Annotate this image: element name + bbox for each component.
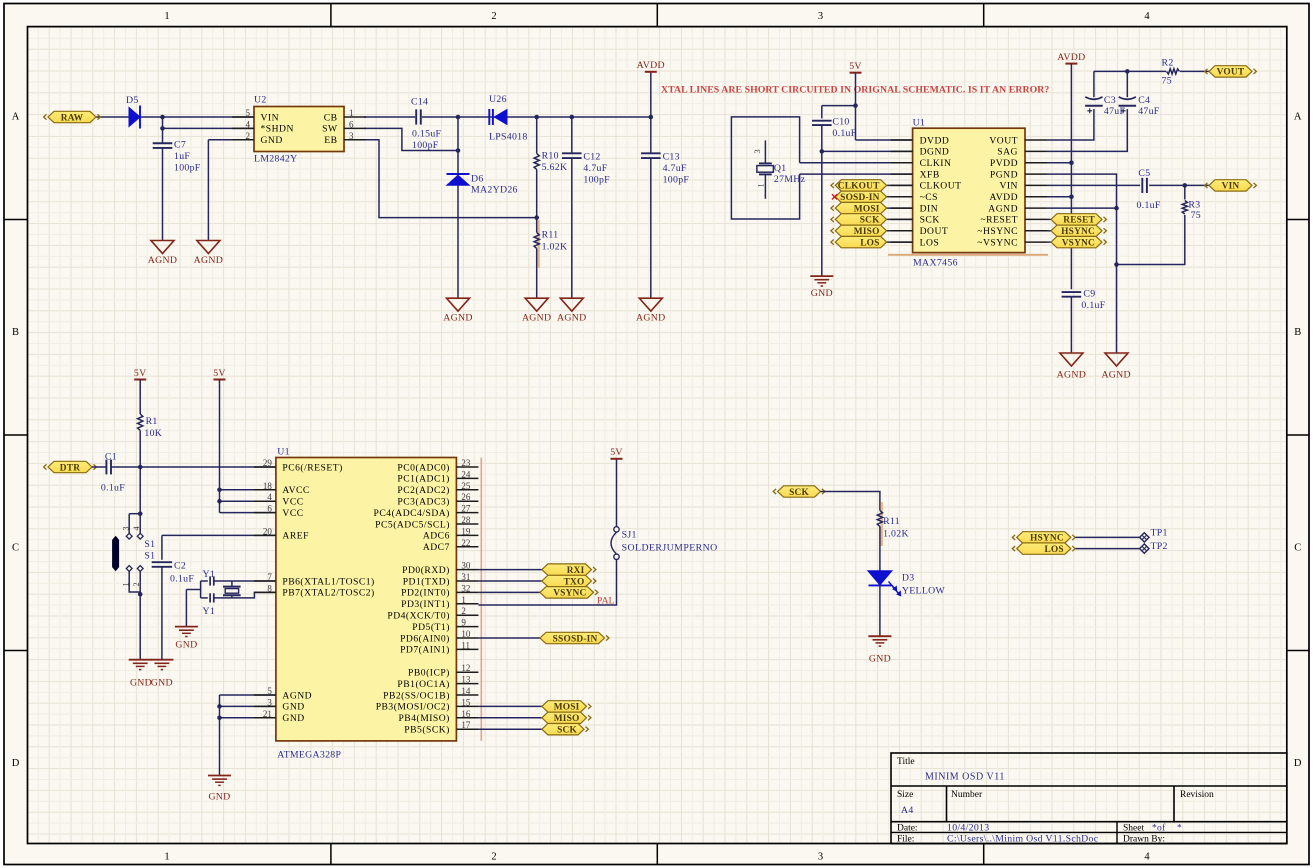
svg-text:6: 6 (267, 504, 272, 514)
svg-text:C: C (1294, 543, 1301, 554)
svg-text:C1: C1 (105, 452, 117, 463)
svg-text:U26: U26 (489, 94, 507, 105)
svg-text:D3: D3 (902, 573, 915, 584)
svg-text:32: 32 (461, 583, 470, 593)
svg-text:Number: Number (951, 790, 983, 800)
svg-text:C:\Users\..\Minim Osd V11.SchD: C:\Users\..\Minim Osd V11.SchDoc (947, 834, 1099, 845)
svg-text:AGND: AGND (636, 313, 666, 324)
svg-text:21: 21 (263, 709, 272, 719)
svg-text:D6: D6 (471, 174, 484, 185)
svg-text:27: 27 (461, 504, 471, 514)
svg-text:4: 4 (132, 526, 141, 530)
svg-text:DTR: DTR (60, 463, 80, 473)
svg-text:C4: C4 (1138, 95, 1150, 106)
svg-text:9: 9 (461, 618, 466, 628)
svg-text:SW: SW (322, 124, 338, 135)
svg-text:1: 1 (349, 108, 354, 118)
svg-text:3: 3 (122, 526, 131, 530)
svg-text:0.1uF: 0.1uF (170, 574, 194, 585)
svg-text:1.02K: 1.02K (883, 529, 909, 540)
svg-text:PB5(SCK): PB5(SCK) (404, 725, 450, 736)
svg-text:Y1: Y1 (203, 606, 216, 617)
svg-text:C10: C10 (832, 117, 849, 128)
svg-text:PC3(ADC3): PC3(ADC3) (397, 497, 449, 508)
svg-text:C: C (12, 543, 19, 554)
svg-text:MISO: MISO (854, 227, 880, 237)
svg-text:SCK: SCK (789, 488, 809, 498)
svg-text:PGND: PGND (990, 169, 1018, 180)
svg-text:VIN: VIN (261, 112, 280, 123)
svg-text:Y1: Y1 (203, 569, 216, 580)
svg-text:24: 24 (461, 469, 471, 479)
svg-text:YELLOW: YELLOW (902, 586, 946, 597)
svg-text:3: 3 (267, 697, 272, 707)
svg-text:R11: R11 (542, 230, 559, 241)
svg-text:HSYNC: HSYNC (1030, 534, 1064, 544)
svg-text:Drawn By:: Drawn By: (1123, 835, 1165, 845)
svg-text:PC1(ADC1): PC1(ADC1) (397, 474, 449, 485)
svg-text:*SHDN: *SHDN (261, 124, 294, 135)
svg-text:3: 3 (753, 149, 762, 153)
svg-text:XFB: XFB (920, 169, 940, 180)
svg-text:27MHz: 27MHz (774, 174, 806, 185)
svg-text:A4: A4 (901, 805, 914, 816)
svg-text:PD1(TXD): PD1(TXD) (403, 576, 450, 587)
svg-text:22: 22 (461, 538, 470, 548)
svg-text:100pF: 100pF (412, 140, 439, 151)
svg-text:20: 20 (263, 526, 273, 536)
svg-text:3: 3 (818, 851, 823, 862)
svg-text:AREF: AREF (282, 531, 309, 542)
svg-text:47uF: 47uF (1104, 106, 1126, 117)
svg-text:C7: C7 (174, 140, 186, 151)
svg-text:5V: 5V (213, 368, 226, 379)
svg-text:AVDD: AVDD (1057, 52, 1085, 63)
svg-text:14: 14 (461, 686, 471, 696)
svg-text:4: 4 (1144, 851, 1150, 862)
svg-text:1uF: 1uF (174, 151, 190, 162)
svg-text:PB7(XTAL2/TOSC2): PB7(XTAL2/TOSC2) (282, 588, 374, 599)
svg-text:Date:: Date: (897, 824, 918, 834)
svg-text:SOSD-IN: SOSD-IN (840, 193, 879, 203)
svg-text:GND: GND (811, 288, 833, 299)
svg-text:13: 13 (461, 675, 471, 685)
svg-text:R1: R1 (146, 416, 158, 427)
svg-text:GND: GND (151, 678, 173, 689)
svg-text:AVCC: AVCC (282, 485, 309, 496)
svg-text:LPS4018: LPS4018 (489, 132, 528, 143)
svg-text:1: 1 (757, 183, 766, 187)
svg-text:10: 10 (461, 629, 471, 639)
svg-text:A: A (12, 112, 20, 123)
svg-text:S1: S1 (144, 539, 155, 550)
svg-text:26: 26 (461, 492, 471, 502)
svg-text:D: D (1294, 758, 1302, 769)
svg-text:PB4(MISO): PB4(MISO) (398, 713, 449, 724)
svg-text:R11: R11 (883, 516, 900, 527)
svg-text:AGND: AGND (282, 690, 312, 701)
svg-text:GND: GND (282, 702, 304, 713)
svg-text:1: 1 (122, 582, 131, 586)
svg-text:AVDD: AVDD (990, 192, 1018, 203)
svg-text:5: 5 (267, 686, 272, 696)
svg-text:75: 75 (1162, 76, 1172, 87)
svg-text:R10: R10 (542, 151, 559, 162)
svg-text:AVDD: AVDD (637, 60, 665, 71)
svg-text:17: 17 (461, 720, 471, 730)
svg-text:DGND: DGND (920, 147, 950, 158)
svg-text:0.1uF: 0.1uF (101, 483, 125, 494)
svg-text:SCK: SCK (920, 215, 940, 226)
svg-text:AGND: AGND (522, 313, 552, 324)
svg-text:MAX7456: MAX7456 (913, 258, 958, 269)
svg-text:TP2: TP2 (1151, 541, 1168, 552)
svg-text:4: 4 (267, 492, 272, 502)
svg-text:B: B (1294, 327, 1301, 338)
svg-text:C9: C9 (1083, 289, 1095, 300)
svg-text:10/4/2013: 10/4/2013 (947, 823, 989, 834)
svg-text:SSOSD-IN: SSOSD-IN (553, 634, 598, 644)
svg-text:~CS: ~CS (920, 192, 938, 203)
svg-text:75: 75 (1191, 210, 1201, 221)
svg-text:100pF: 100pF (583, 175, 610, 186)
svg-text:RXI: RXI (567, 566, 585, 576)
svg-text:100pF: 100pF (663, 175, 690, 186)
svg-text:*: * (1177, 824, 1182, 834)
svg-text:19: 19 (461, 526, 471, 536)
svg-text:31: 31 (461, 572, 470, 582)
svg-text:C3: C3 (1104, 95, 1116, 106)
svg-text:GND: GND (282, 713, 304, 724)
svg-text:PD5(T1): PD5(T1) (412, 622, 450, 633)
svg-text:6: 6 (349, 119, 354, 129)
svg-text:D5: D5 (126, 95, 139, 106)
svg-text:ATMEGA328P: ATMEGA328P (277, 750, 341, 761)
svg-text:Size: Size (897, 790, 913, 800)
svg-text:VCC: VCC (282, 508, 303, 519)
svg-text:Revision: Revision (1180, 790, 1214, 800)
svg-text:PC0(ADC0): PC0(ADC0) (397, 462, 449, 473)
svg-text:TXO: TXO (564, 577, 585, 587)
svg-text:12: 12 (461, 663, 470, 673)
svg-text:AGND: AGND (988, 203, 1018, 214)
svg-text:MA2YD26: MA2YD26 (471, 185, 518, 196)
svg-text:CB: CB (324, 112, 338, 123)
svg-text:LOS: LOS (860, 238, 879, 248)
svg-text:LOS: LOS (1044, 545, 1063, 555)
svg-text:28: 28 (461, 515, 471, 525)
svg-text:C5: C5 (1138, 168, 1150, 179)
svg-text:PB3(MOSI/OC2): PB3(MOSI/OC2) (376, 702, 450, 713)
svg-text:3: 3 (349, 131, 354, 141)
svg-text:MOSI: MOSI (854, 204, 880, 214)
svg-text:~RESET: ~RESET (980, 215, 1018, 226)
svg-text:SCK: SCK (557, 726, 577, 736)
svg-text:PD3(INT1): PD3(INT1) (401, 599, 450, 610)
svg-text:VOUT: VOUT (1217, 68, 1245, 78)
svg-text:C13: C13 (663, 152, 680, 163)
svg-text:C2: C2 (174, 561, 186, 572)
svg-text:2: 2 (461, 606, 466, 616)
svg-text:CLKIN: CLKIN (920, 158, 952, 169)
svg-text:D: D (12, 758, 20, 769)
svg-text:2: 2 (491, 851, 496, 862)
svg-text:100pF: 100pF (174, 163, 201, 174)
svg-text:PB1(OC1A): PB1(OC1A) (397, 679, 449, 690)
svg-text:AGND: AGND (1057, 370, 1087, 381)
svg-text:PC2(ADC2): PC2(ADC2) (397, 485, 449, 496)
svg-text:29: 29 (263, 458, 273, 468)
svg-text:U1: U1 (277, 447, 290, 458)
svg-text:AGND: AGND (148, 255, 178, 266)
svg-text:18: 18 (263, 481, 273, 491)
svg-text:ADC6: ADC6 (423, 531, 450, 542)
svg-text:Sheet: Sheet (1123, 824, 1144, 834)
svg-text:0.1uF: 0.1uF (1081, 300, 1105, 311)
svg-text:5: 5 (246, 108, 251, 118)
svg-text:C12: C12 (583, 152, 600, 163)
svg-text:4.7uF: 4.7uF (583, 163, 607, 174)
svg-text:PD4(XCK/T0): PD4(XCK/T0) (387, 611, 450, 622)
svg-text:PD2(INT0): PD2(INT0) (401, 588, 450, 599)
svg-text:PB6(XTAL1/TOSC1): PB6(XTAL1/TOSC1) (282, 576, 374, 587)
svg-text:PVDD: PVDD (990, 158, 1018, 169)
svg-text:GND: GND (175, 640, 197, 651)
svg-text:PB2(SS/OC1B): PB2(SS/OC1B) (383, 690, 450, 701)
svg-text:DVDD: DVDD (920, 135, 950, 146)
svg-text:GND: GND (130, 678, 152, 689)
svg-text:SCK: SCK (860, 216, 880, 226)
svg-text:DIN: DIN (920, 203, 939, 214)
svg-text:CLKOUT: CLKOUT (838, 182, 880, 192)
svg-text:0.1uF: 0.1uF (832, 128, 856, 139)
svg-text:PB0(ICP): PB0(ICP) (408, 668, 450, 679)
svg-text:CLKOUT: CLKOUT (920, 181, 962, 192)
svg-text:47uF: 47uF (1138, 106, 1160, 117)
svg-text:ADC7: ADC7 (423, 542, 450, 553)
svg-text:GND: GND (869, 654, 891, 665)
svg-text:LM2842Y: LM2842Y (254, 154, 297, 165)
svg-text:Q1: Q1 (774, 163, 787, 174)
svg-text:~HSYNC: ~HSYNC (977, 226, 1018, 237)
svg-text:MINIM OSD V11: MINIM OSD V11 (925, 772, 1005, 783)
svg-text:PC6(/RESET): PC6(/RESET) (282, 462, 342, 473)
svg-text:2: 2 (246, 131, 251, 141)
svg-text:25: 25 (461, 481, 471, 491)
svg-text:VIN: VIN (1222, 182, 1240, 192)
svg-text:16: 16 (461, 709, 471, 719)
svg-text:5V: 5V (610, 447, 623, 458)
svg-text:PD7(AIN1): PD7(AIN1) (400, 645, 450, 656)
svg-text:10K: 10K (144, 428, 162, 439)
svg-text:MISO: MISO (554, 714, 580, 724)
svg-text:Title: Title (897, 757, 915, 767)
svg-text:AGND: AGND (1101, 370, 1131, 381)
svg-text:15: 15 (461, 697, 471, 707)
svg-text:2: 2 (491, 11, 496, 22)
svg-text:VIN: VIN (999, 181, 1018, 192)
svg-text:MOSI: MOSI (554, 703, 580, 713)
svg-text:VOUT: VOUT (989, 135, 1018, 146)
svg-text:30: 30 (461, 561, 471, 571)
svg-text:7: 7 (267, 572, 272, 582)
svg-text:U2: U2 (254, 95, 267, 106)
svg-text:SAG: SAG (997, 147, 1018, 158)
svg-text:1: 1 (461, 595, 466, 605)
svg-text:A: A (1294, 112, 1302, 123)
svg-text:C14: C14 (411, 97, 428, 108)
svg-text:VSYNC: VSYNC (1062, 238, 1095, 248)
svg-text:4.7uF: 4.7uF (663, 163, 687, 174)
svg-text:PD6(AIN0): PD6(AIN0) (400, 633, 450, 644)
svg-text:4: 4 (1144, 11, 1150, 22)
svg-text:PC5(ADC5/SCL): PC5(ADC5/SCL) (375, 519, 450, 530)
svg-text:RESET: RESET (1063, 216, 1095, 226)
svg-text:SJ1: SJ1 (622, 530, 637, 541)
svg-text:PD0(RXD): PD0(RXD) (402, 565, 450, 576)
svg-text:LOS: LOS (920, 237, 940, 248)
svg-text:GND: GND (261, 135, 283, 146)
svg-text:AGND: AGND (557, 313, 587, 324)
svg-text:HSYNC: HSYNC (1061, 227, 1095, 237)
svg-text:0.15uF: 0.15uF (412, 129, 442, 140)
svg-text:4: 4 (246, 119, 251, 129)
svg-text:AGND: AGND (194, 255, 224, 266)
svg-text:2: 2 (132, 582, 141, 586)
svg-text:R2: R2 (1162, 58, 1174, 69)
svg-text:11: 11 (461, 640, 470, 650)
svg-text:EB: EB (324, 135, 337, 146)
svg-text:5V: 5V (849, 61, 862, 72)
svg-text:GND: GND (208, 792, 230, 803)
svg-text:RAW: RAW (61, 113, 84, 123)
svg-text:23: 23 (461, 458, 471, 468)
svg-text:VCC: VCC (282, 497, 303, 508)
svg-text:3: 3 (818, 11, 823, 22)
svg-text:1: 1 (164, 851, 169, 862)
svg-text:VSYNC: VSYNC (553, 589, 586, 599)
svg-text:File:: File: (897, 835, 914, 845)
svg-text:0.1uF: 0.1uF (1137, 200, 1161, 211)
svg-text:~VSYNC: ~VSYNC (977, 237, 1018, 248)
svg-text:8: 8 (267, 583, 272, 593)
svg-text:DOUT: DOUT (920, 226, 949, 237)
svg-text:S1: S1 (144, 551, 155, 562)
svg-text:5.62K: 5.62K (542, 162, 568, 173)
svg-text:1.02K: 1.02K (542, 242, 568, 253)
svg-text:U1: U1 (913, 118, 926, 129)
svg-text:TP1: TP1 (1151, 528, 1168, 539)
svg-text:AGND: AGND (443, 313, 473, 324)
svg-text:SOLDERJUMPERNO: SOLDERJUMPERNO (622, 543, 718, 554)
svg-text:*of: *of (1152, 823, 1166, 834)
svg-text:5V: 5V (134, 368, 147, 379)
svg-text:1: 1 (164, 11, 169, 22)
svg-text:B: B (12, 327, 19, 338)
svg-text:PC4(ADC4/SDA): PC4(ADC4/SDA) (374, 508, 450, 519)
